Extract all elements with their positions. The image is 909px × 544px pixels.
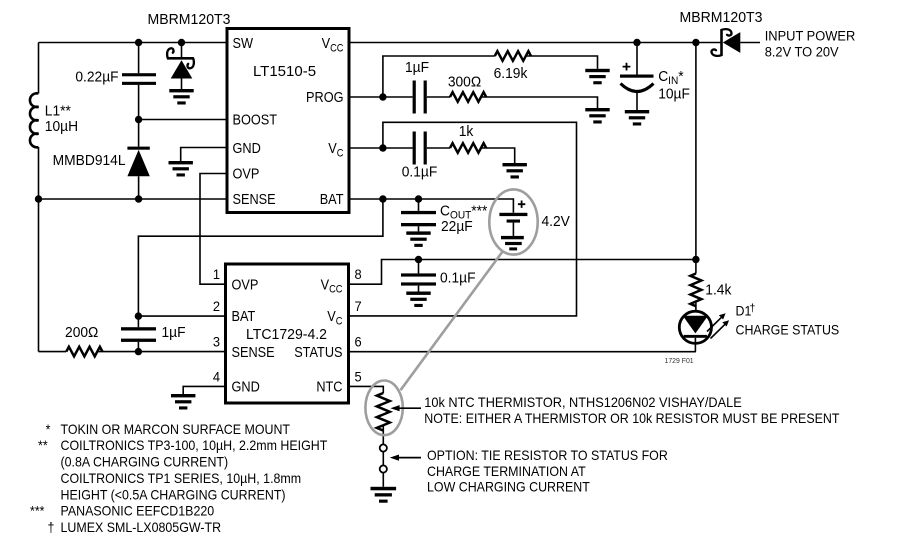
wire pin5 to thermistor [349,386,384,393]
svg-text:COILTRONICS TP3-100, 10µH, 2.2: COILTRONICS TP3-100, 10µH, 2.2mm HEIGHT [61,437,328,453]
ground (CIN) [625,110,649,126]
svg-text:GND: GND [232,379,260,395]
svg-text:OVP: OVP [233,166,260,182]
svg-text:GND: GND [233,140,261,156]
wire terminal to ground [382,473,384,487]
node VC junction [379,144,386,151]
svg-text:1k: 1k [459,124,474,141]
battery 4.2V [499,213,527,216]
resistor 6.19k [495,51,531,61]
svg-text:NOTE: EITHER A THERMISTOR OR 1: NOTE: EITHER A THERMISTOR OR 10k RESISTO… [424,411,839,427]
svg-text:10µH: 10µH [45,119,78,136]
svg-text:10k NTC THERMISTOR, NTHS1206N0: 10k NTC THERMISTOR, NTHS1206N02 VISHAY/D… [424,395,742,410]
capacitor COUT 22uF [418,199,420,211]
ground (1k) [503,163,527,179]
node pin8 0.1uF junction [415,256,422,263]
svg-text:4: 4 [213,369,221,385]
svg-text:4.2V: 4.2V [542,214,571,231]
svg-text:22µF: 22µF [441,219,473,236]
svg-text:BAT: BAT [232,308,256,324]
svg-text:LOW CHARGING CURRENT: LOW CHARGING CURRENT [427,479,590,495]
node CIN junction [633,39,640,46]
wire PROG cap to 300 [427,96,450,98]
svg-text:8.2V TO 20V: 8.2V TO 20V [765,44,839,60]
wire 6.19k to ground [526,56,598,69]
wire thermistor to terminal [382,425,384,444]
callout ellipse battery [489,189,537,254]
node BAT junction 2 (COUT) [415,195,422,202]
op-amp U1 LT1510-5 box [227,29,349,213]
wire top rail right (VCC) [349,42,721,44]
svg-text:5: 5 [355,369,362,385]
svg-text:COILTRONICS TP1 SERIES, 10µH,: COILTRONICS TP1 SERIES, 10µH, 1.8mm [61,470,302,486]
svg-text:BAT: BAT [320,191,344,207]
ground (catch diode) [169,89,193,105]
svg-text:CHARGE TERMINATION AT: CHARGE TERMINATION AT [427,463,586,479]
wire left rail lower [38,147,40,352]
inductor L1 10uH [30,93,39,147]
resistor 200ohm [66,347,102,357]
LED emission arrows [707,317,722,331]
LED D1 charge status [679,311,711,343]
svg-text:NTC: NTC [316,379,342,395]
svg-text:MBRM120T3: MBRM120T3 [679,10,762,26]
wire GND pin to ground [181,148,227,162]
wire PROG line [349,96,413,98]
ground (COUT) [406,231,430,247]
capacitor 0.1uF (pin8) [418,260,420,274]
resistor 300ohm [450,92,486,102]
svg-text:LUMEX SML-LX0805GW-TR: LUMEX SML-LX0805GW-TR [61,520,222,536]
svg-text:OVP: OVP [232,277,259,293]
node input rail junction [692,39,699,46]
svg-text:0.1µF: 0.1µF [402,164,438,181]
svg-text:1729 F01: 1729 F01 [665,356,694,365]
svg-text:1µF: 1µF [405,59,429,76]
wire pin4 to ground [183,386,225,394]
wire OVP to pin1 [200,174,227,285]
svg-text:6.19k: 6.19k [494,66,529,83]
svg-text:**: ** [38,437,48,453]
diode MBRM120T3 (input) [720,29,723,56]
wire pin3 line [97,351,225,353]
svg-text:†: † [750,302,756,314]
wire SENSE line [39,198,228,200]
svg-text:8: 8 [355,267,362,283]
svg-text:TOKIN OR MARCON SURFACE MOUNT: TOKIN OR MARCON SURFACE MOUNT [61,421,291,437]
wire top rail left (SW to input) [39,42,228,44]
wire pin8 to input rail [349,260,696,285]
node PROG junction [379,93,386,100]
op-amp U2 LTC1729-4.2 box [226,264,349,403]
node pin2-1uF junction [135,312,142,319]
svg-text:INPUT POWER: INPUT POWER [765,28,856,44]
node BAT junction 1 [379,195,386,202]
svg-text:STATUS: STATUS [294,344,342,360]
ground (LTC1729 GND) [171,394,195,410]
node top rail 0.22uF junction [135,39,142,46]
diode MMBD914L [138,120,140,147]
svg-text:3: 3 [213,334,220,350]
node SENSE-left rail junction [35,195,42,202]
wire BOOST line [139,119,227,121]
wire pin2 line [138,315,225,317]
svg-text:CHARGE STATUS: CHARGE STATUS [736,322,840,338]
wire VC feedback to pin7 [349,122,577,316]
svg-text:1.4k: 1.4k [705,282,732,299]
svg-text:10µF: 10µF [658,86,690,103]
svg-text:BOOST: BOOST [233,112,278,128]
svg-text:LT1510-5: LT1510-5 [253,63,316,80]
svg-text:PROG: PROG [306,89,343,105]
svg-text:1µF: 1µF [162,325,186,342]
node pin3-1uF junction [135,348,142,355]
svg-text:*: * [46,421,51,437]
ground (LT1510 GND) [169,161,193,177]
arrow thermistor note [398,407,421,409]
svg-text:300Ω: 300Ω [448,74,482,91]
svg-text:0.1µF: 0.1µF [440,270,476,287]
wire 1k to ground [481,148,515,163]
node top rail MBRM junction [178,39,185,46]
wire BAT line [349,199,513,213]
ground (pin8 cap) [406,292,430,308]
svg-text:MBRM120T3: MBRM120T3 [147,12,230,28]
svg-text:HEIGHT (<0.5A CHARGING CURRENT: HEIGHT (<0.5A CHARGING CURRENT) [61,487,286,503]
svg-text:200Ω: 200Ω [65,325,99,342]
arrow option note [398,457,422,459]
svg-text:L1**: L1** [45,103,71,120]
callout ellipse thermistor [365,381,402,436]
ground (6.19k) [585,69,609,85]
node open terminal 2 [380,465,387,472]
capacitor 0.1uF (VC) [413,132,416,165]
node 1.4k junction [692,256,699,263]
resistor 1.4k [695,260,697,274]
svg-text:†: † [48,520,55,536]
svg-text:2: 2 [213,298,220,314]
svg-text:SENSE: SENSE [232,344,275,360]
wire input rail down [695,43,697,260]
svg-text:MMBD914L: MMBD914L [53,152,126,169]
node open terminal 1 [380,444,387,451]
wire PROG up branch [383,56,495,97]
capacitor 1uF (LTC1729) [137,316,139,327]
capacitor 0.22uF [122,73,156,76]
svg-text:(0.8A CHARGING CURRENT): (0.8A CHARGING CURRENT) [61,454,229,470]
wire VC cap to 1k [427,147,450,149]
svg-text:PANASONIC EEFCD1B220: PANASONIC EEFCD1B220 [61,503,215,519]
ground (300ohm) [585,108,609,124]
wire between terminals [382,452,384,466]
callout line [401,251,503,390]
svg-text:0.22µF: 0.22µF [75,69,118,86]
svg-text:OPTION: TIE RESISTOR TO STATUS: OPTION: TIE RESISTOR TO STATUS FOR [427,448,668,464]
thermistor 10k NTC [377,393,390,431]
svg-text:SENSE: SENSE [233,191,276,207]
ground (thermistor) [371,487,397,503]
wire 200 to left rail [39,351,67,353]
svg-text:1: 1 [213,267,220,283]
svg-text:7: 7 [355,298,362,314]
capacitor 1uF (PROG) [413,81,416,114]
wire VC line [349,147,413,149]
resistor 1k [450,143,486,153]
wire BAT to pin2 [138,199,383,316]
diode MBRM120T3 (catch) [181,43,183,59]
svg-text:***: *** [30,503,45,519]
svg-text:6: 6 [355,334,362,350]
wire STATUS line [349,351,696,353]
wire 300 to ground [481,97,598,108]
node BOOST-cap junction [135,116,142,123]
capacitor CIN 10uF [636,43,638,75]
svg-text:SW: SW [233,35,254,51]
svg-text:LTC1729-4.2: LTC1729-4.2 [246,326,327,342]
node SENSE-MMBD914L junction [135,195,142,202]
wire left rail upper [38,43,40,94]
